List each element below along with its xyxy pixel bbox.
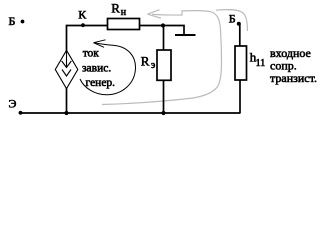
svg-text:н: н [121,7,127,18]
svg-text:генер.: генер. [86,77,116,89]
gray loop annotation arrow [102,11,222,105]
resistor Rн box [108,19,140,30]
gray outer swing around node Б right [216,10,248,31]
svg-text:К: К [78,8,87,22]
terminal dot Э [19,111,23,115]
resistor Rэ box [157,50,171,80]
wire h11 to bottom [239,80,241,114]
terminal dot Б right [237,22,241,26]
annotation text: ток завис. генер. [82,48,115,90]
junction node dot top [161,23,165,27]
svg-text:Б: Б [229,11,236,25]
svg-text:R: R [141,54,150,69]
svg-text:Б: Б [9,14,16,28]
annotation ellipse arrow around text [80,43,136,95]
svg-text:э: э [151,60,155,71]
arrow inside source (points down) [66,51,68,67]
dependent current source diamond [55,50,78,88]
wire Rэ to bottom [163,80,165,113]
arrowhead of annotation ellipse [94,40,106,48]
svg-text:Э: Э [9,96,17,110]
ground bar [175,34,196,36]
svg-text:R: R [111,1,120,16]
gray arrowhead (points left) [148,10,162,19]
wire Б to h11 [239,24,241,47]
svg-text:ток: ток [83,48,100,60]
bottom wire [21,112,241,114]
wire junction to Rэ [163,26,165,51]
junction node dot bottom diamond [64,111,68,115]
wire Rн to ground stub [140,26,185,35]
junction node dot bottom Rэ [161,111,165,115]
svg-text:11: 11 [256,58,266,69]
resistor h11 box [235,46,247,80]
wire: left branch corner to Rн [67,26,108,114]
terminal dot Б left [21,20,25,24]
svg-text:завис.: завис. [82,63,111,75]
svg-text:транзист.: транзист. [270,71,317,85]
node К dot [81,23,85,27]
